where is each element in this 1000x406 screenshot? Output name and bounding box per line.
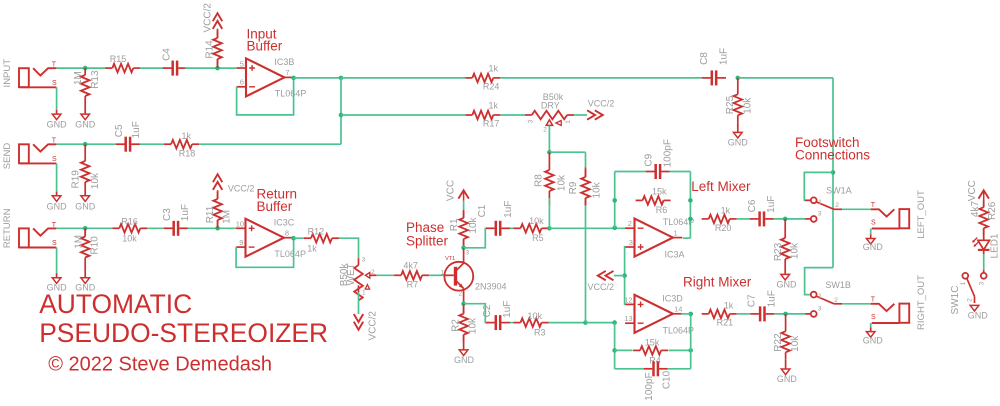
- power VCC/2 below WET pot: [354, 314, 363, 330]
- svg-text:C2: C2: [482, 304, 493, 317]
- svg-text:R16: R16: [121, 217, 138, 227]
- resistor R11: [217, 190, 219, 199]
- ground under LEFT_OUT: [866, 239, 875, 245]
- svg-text:100pF: 100pF: [662, 139, 673, 167]
- svg-text:T: T: [871, 202, 876, 209]
- resistor R20: [702, 218, 709, 220]
- wire C3 to IC3C pin10: [188, 227, 236, 229]
- svg-text:INPUT: INPUT: [2, 59, 13, 88]
- LED LED1: [978, 240, 990, 249]
- ground under R19: [81, 196, 90, 202]
- wire R20 to C6: [737, 218, 751, 220]
- svg-text:R15: R15: [110, 54, 127, 64]
- svg-text:9: 9: [239, 238, 243, 247]
- wire R8 to left mixer node: [548, 198, 550, 228]
- svg-text:GND: GND: [777, 374, 798, 384]
- wire IC3A output: [683, 237, 691, 239]
- svg-text:1: 1: [818, 293, 822, 300]
- svg-text:R26: R26: [987, 201, 998, 220]
- svg-text:R7: R7: [407, 280, 419, 290]
- svg-text:2: 2: [966, 298, 973, 302]
- audio jack connector RIGHT_OUT: [871, 304, 895, 311]
- potentiometer B50k DRY: [525, 114, 532, 116]
- svg-text:4k7: 4k7: [970, 201, 981, 218]
- wire to SW1B pin1: [805, 268, 833, 295]
- wire R18 to corner up to buffer output: [199, 143, 341, 145]
- svg-text:3: 3: [629, 238, 633, 247]
- wire R24 row: [341, 77, 465, 79]
- svg-text:1: 1: [818, 199, 822, 206]
- ground under send jack sleeve: [52, 196, 61, 202]
- svg-text:R25: R25: [725, 95, 736, 114]
- wire R17 to DRY pot: [500, 114, 525, 116]
- capacitor C3: [164, 227, 173, 229]
- svg-text:SW1C: SW1C: [950, 286, 961, 315]
- svg-text:2: 2: [834, 297, 838, 304]
- wire to R17: [341, 114, 465, 116]
- wire return jack sleeve down: [56, 248, 58, 274]
- svg-text:VCC/2: VCC/2: [588, 282, 615, 292]
- svg-text:R3: R3: [534, 328, 546, 338]
- svg-text:1uF: 1uF: [131, 121, 142, 138]
- svg-text:13: 13: [624, 314, 632, 323]
- resistor R5: [514, 227, 521, 229]
- svg-text:GND: GND: [75, 202, 96, 212]
- svg-text:10k: 10k: [790, 242, 801, 259]
- power VCC/2 above R11: [213, 174, 222, 190]
- wire R12 to WET pot: [339, 238, 359, 258]
- svg-text:AUTOMATIC: AUTOMATIC: [39, 289, 192, 319]
- wire R21 to C7: [737, 313, 751, 315]
- wire IC3A pin2 vertical feedback rail: [614, 172, 616, 228]
- node R20 junction: [688, 217, 693, 222]
- resistor R14: [217, 29, 219, 38]
- wire DRY wiper down: [548, 126, 550, 153]
- svg-text:R8: R8: [534, 174, 545, 187]
- svg-text:3: 3: [818, 210, 822, 217]
- ground under RIGHT_OUT: [866, 332, 875, 338]
- wire C9 row: [615, 171, 647, 173]
- node send junction: [83, 142, 88, 147]
- svg-text:100pF: 100pF: [644, 372, 655, 400]
- svg-text:2N3904: 2N3904: [475, 282, 507, 292]
- node IC3C output: [291, 236, 296, 241]
- svg-text:R9: R9: [568, 181, 579, 194]
- svg-text:1uF: 1uF: [767, 290, 778, 307]
- svg-text:10k: 10k: [90, 172, 101, 189]
- svg-text:S: S: [52, 240, 57, 247]
- svg-text:S: S: [52, 156, 57, 163]
- wire R16 to C3: [147, 227, 164, 229]
- svg-text:1k: 1k: [488, 63, 498, 73]
- svg-text:R24: R24: [483, 81, 500, 91]
- svg-text:R2: R2: [451, 319, 462, 332]
- svg-text:Buffer: Buffer: [257, 199, 293, 214]
- node collector junction: [461, 246, 466, 251]
- resistor R25: [737, 78, 739, 88]
- resistor R4: [615, 349, 633, 351]
- wire to SW1A pin1: [804, 172, 833, 200]
- svg-text:1M: 1M: [74, 235, 85, 249]
- svg-text:TL064P: TL064P: [274, 249, 306, 259]
- resistor R17: [465, 114, 472, 116]
- svg-text:S: S: [871, 314, 876, 321]
- capacitor C8: [702, 77, 711, 79]
- svg-text:GND: GND: [454, 355, 475, 365]
- svg-text:R14: R14: [204, 40, 215, 59]
- node R17 branch: [339, 113, 344, 118]
- svg-text:5: 5: [240, 59, 244, 68]
- wire R7 to VT1 base: [429, 274, 444, 276]
- svg-text:GND: GND: [47, 202, 68, 212]
- svg-text:3: 3: [818, 305, 822, 312]
- wire C5 to R18: [140, 143, 164, 145]
- resistor R12: [304, 237, 311, 239]
- op-amp IC3D: [635, 295, 673, 333]
- ground under return jack sleeve: [52, 278, 61, 284]
- ground under R2: [459, 350, 468, 356]
- node return junction: [83, 226, 88, 231]
- svg-text:C1: C1: [477, 204, 488, 217]
- svg-text:TL064P: TL064P: [663, 325, 695, 335]
- svg-text:RIGHT_OUT: RIGHT_OUT: [916, 275, 927, 330]
- svg-text:2: 2: [628, 219, 632, 228]
- resistor R26: [983, 206, 985, 208]
- svg-text:Left Mixer: Left Mixer: [691, 179, 751, 194]
- audio jack connector RETURN: [19, 228, 29, 247]
- svg-text:WET: WET: [346, 263, 357, 285]
- svg-text:C10: C10: [661, 370, 672, 389]
- svg-text:10k: 10k: [468, 216, 479, 233]
- ground under R13: [81, 114, 90, 120]
- wire VCC/2 arrow stub: [614, 275, 625, 277]
- svg-text:8: 8: [285, 229, 289, 238]
- power VCC above R1: [458, 190, 468, 198]
- svg-text:12: 12: [624, 295, 632, 304]
- wire SW1B common to RIGHT_OUT: [842, 303, 871, 305]
- audio jack connector INPUT: [19, 68, 29, 87]
- wire VCC/2 node to IC3A pin3: [624, 247, 627, 304]
- wire R3 to R9 node: [549, 322, 586, 324]
- wire C10 row: [615, 368, 644, 370]
- svg-text:Connections: Connections: [795, 148, 870, 163]
- wire IC3D output: [681, 313, 691, 315]
- svg-text:1k: 1k: [724, 300, 734, 310]
- svg-text:1: 1: [960, 281, 967, 285]
- audio jack connector LEFT_OUT: [871, 209, 895, 216]
- capacitor C6: [750, 218, 759, 220]
- wire right out sleeve down: [870, 323, 872, 327]
- wire IC3C output to R12: [294, 237, 306, 239]
- node IC3B output: [291, 76, 296, 81]
- svg-text:10k: 10k: [528, 311, 543, 321]
- wire down right edge to SW1A: [832, 78, 834, 268]
- svg-text:1: 1: [565, 120, 572, 124]
- wire collector to C1: [464, 228, 487, 248]
- ground under SW1C: [970, 305, 979, 311]
- svg-text:10: 10: [236, 220, 244, 229]
- node R14 junction: [215, 66, 220, 71]
- svg-text:R22: R22: [773, 333, 784, 352]
- wire send jack tip: [56, 143, 116, 145]
- svg-text:LED1: LED1: [990, 233, 1000, 258]
- svg-text:PSEUDO-STEREOIZER: PSEUDO-STEREOIZER: [39, 318, 328, 348]
- node R11 junction: [215, 226, 220, 231]
- wire R4 to right rail: [669, 349, 691, 351]
- svg-text:VCC/2: VCC/2: [588, 99, 615, 109]
- svg-text:IC3C: IC3C: [274, 217, 295, 227]
- wire C4 to IC3B pin5: [185, 67, 237, 69]
- svg-text:2: 2: [459, 290, 463, 297]
- svg-text:VCC: VCC: [967, 180, 978, 201]
- svg-text:3: 3: [362, 257, 366, 264]
- capacitor C1: [486, 227, 495, 229]
- wire return jack tip: [56, 227, 112, 229]
- resistor R1: [463, 210, 465, 218]
- wire IC3B feedback loop: [237, 78, 294, 115]
- node wiper junction: [547, 150, 552, 155]
- svg-text:4k7: 4k7: [403, 261, 418, 271]
- svg-text:7: 7: [285, 68, 289, 77]
- wire C6 to SW1A pin3: [774, 218, 806, 220]
- svg-text:1M: 1M: [222, 210, 233, 224]
- svg-text:10k: 10k: [529, 216, 544, 226]
- svg-text:3: 3: [527, 119, 534, 123]
- wire emitter to C2: [464, 304, 487, 323]
- wire C8 junction to corner: [738, 77, 833, 79]
- node dry split junction: [339, 76, 344, 81]
- svg-text:R1: R1: [449, 218, 460, 231]
- svg-text:10k: 10k: [742, 97, 753, 114]
- node R4 left junction: [612, 348, 617, 353]
- capacitor C5: [116, 143, 125, 145]
- svg-text:S: S: [871, 220, 876, 227]
- capacitor C2: [486, 322, 495, 324]
- transistor VT1 2N3904: [444, 262, 473, 291]
- svg-text:SW1A: SW1A: [826, 185, 852, 195]
- wire left out sleeve down: [870, 229, 872, 235]
- resistor R9: [585, 168, 587, 178]
- svg-text:1uF: 1uF: [180, 204, 191, 221]
- svg-text:S: S: [52, 80, 57, 87]
- wire R15 to C4: [140, 67, 165, 69]
- resistor R24: [465, 77, 472, 79]
- resistor R21: [702, 313, 709, 315]
- svg-text:3: 3: [978, 281, 985, 285]
- svg-text:T: T: [52, 138, 57, 145]
- ground under input jack sleeve: [52, 114, 61, 120]
- svg-text:R10: R10: [89, 236, 100, 255]
- svg-text:1uF: 1uF: [502, 301, 513, 318]
- svg-text:GND: GND: [863, 242, 884, 252]
- resistor R13: [84, 68, 86, 75]
- svg-text:1k: 1k: [721, 205, 731, 215]
- wire LED1 to SW1C: [983, 250, 985, 254]
- svg-text:© 2022 Steve Demedash: © 2022 Steve Demedash: [48, 354, 272, 376]
- wire C10 to right rail: [668, 368, 691, 370]
- wire WET wiper to R7: [370, 274, 377, 276]
- capacitor C9: [646, 171, 655, 173]
- ground under R22: [781, 369, 790, 375]
- wire right rail IC3D: [690, 314, 692, 369]
- power VCC/2 above R14: [213, 13, 222, 29]
- svg-text:VT1: VT1: [445, 256, 455, 262]
- svg-text:1M: 1M: [73, 71, 84, 85]
- node R9 bottom junction: [583, 320, 588, 325]
- wire C2 to R3: [510, 322, 514, 324]
- svg-text:T: T: [52, 222, 57, 229]
- wire right feedback rail down: [689, 172, 691, 239]
- svg-text:GND: GND: [968, 311, 989, 321]
- svg-text:C5: C5: [114, 124, 125, 137]
- svg-text:LEFT_OUT: LEFT_OUT: [916, 190, 927, 239]
- node R23 junction: [783, 217, 788, 222]
- svg-text:T: T: [871, 296, 876, 303]
- svg-text:T: T: [52, 62, 57, 69]
- node R6 left junction: [612, 198, 617, 203]
- audio jack connector SEND: [19, 144, 29, 163]
- wire pin13 feedback rail down: [614, 323, 616, 369]
- node emitter junction: [461, 301, 466, 306]
- resistor R10: [84, 228, 86, 236]
- svg-text:R21: R21: [717, 317, 734, 327]
- power VCC/2 mixers: [598, 271, 614, 280]
- resistor R7: [394, 274, 401, 276]
- svg-text:VCC/2: VCC/2: [367, 311, 378, 341]
- svg-text:10k: 10k: [557, 174, 568, 191]
- svg-text:1uF: 1uF: [719, 48, 730, 65]
- svg-text:GND: GND: [47, 119, 68, 129]
- node VCC/2 mixers: [622, 273, 627, 278]
- svg-text:2: 2: [835, 202, 839, 209]
- capacitor C7: [750, 313, 759, 315]
- wire IC3B output to junction: [294, 77, 341, 79]
- svg-text:VCC/2: VCC/2: [228, 183, 255, 193]
- wire R9 down to R3 row: [585, 206, 587, 323]
- svg-text:1k: 1k: [181, 131, 191, 141]
- potentiometer B50k WET: [358, 258, 360, 265]
- resistor R16: [112, 227, 119, 229]
- op-amp IC3C: [246, 219, 284, 257]
- wire C7 to SW1B pin3: [774, 313, 806, 315]
- wire DRY pot to VCC/2: [574, 114, 587, 116]
- power VCC/2 right of DRY pot: [587, 110, 603, 119]
- wire R3 row to IC3D pin13 node: [586, 322, 615, 324]
- node R6 right junction: [688, 198, 693, 203]
- ground under R25: [734, 132, 743, 138]
- svg-text:SEND: SEND: [2, 143, 13, 170]
- svg-text:R12: R12: [308, 226, 325, 236]
- svg-text:10k: 10k: [790, 335, 801, 352]
- node IC3A pin2 junction: [612, 226, 617, 231]
- op-amp IC3A: [635, 219, 673, 257]
- wire send jack sleeve down: [56, 163, 58, 191]
- node IC3D output: [688, 312, 693, 317]
- node R4 right junction: [688, 348, 693, 353]
- node input junction: [83, 66, 88, 71]
- ground under R23: [781, 274, 790, 280]
- node left mixer input: [547, 226, 552, 231]
- svg-text:TL064P: TL064P: [275, 88, 307, 98]
- svg-text:GND: GND: [75, 119, 96, 129]
- capacitor C4: [163, 67, 172, 69]
- svg-text:1k: 1k: [488, 100, 498, 110]
- svg-text:1: 1: [674, 228, 678, 237]
- node SW1A branch: [831, 170, 836, 175]
- svg-text:14: 14: [674, 304, 682, 313]
- svg-text:R13: R13: [90, 70, 101, 89]
- svg-text:10k: 10k: [592, 181, 603, 198]
- svg-text:C4: C4: [161, 48, 172, 61]
- svg-text:C9: C9: [643, 153, 654, 166]
- node IC3D pin13 junction: [612, 320, 617, 325]
- svg-text:6: 6: [240, 78, 244, 87]
- svg-text:C7: C7: [746, 294, 757, 307]
- svg-text:C8: C8: [699, 52, 710, 65]
- resistor R22: [785, 314, 787, 325]
- svg-text:R23: R23: [773, 242, 784, 261]
- capacitor C10: [644, 368, 653, 370]
- ground under R10: [81, 278, 90, 284]
- svg-text:15k: 15k: [652, 186, 667, 196]
- wire VCC to R1: [463, 201, 465, 210]
- svg-text:VCC: VCC: [445, 180, 456, 201]
- svg-text:R20: R20: [715, 223, 732, 233]
- svg-text:1k: 1k: [307, 244, 317, 254]
- power VCC above R26: [979, 190, 989, 198]
- resistor R8: [548, 152, 550, 163]
- svg-text:3: 3: [465, 249, 469, 256]
- wire WET pot pin1 to VCC/2: [358, 292, 360, 314]
- svg-text:1uF: 1uF: [766, 196, 777, 213]
- svg-text:R17: R17: [483, 118, 500, 128]
- svg-text:DRY: DRY: [541, 101, 560, 111]
- svg-text:15k: 15k: [645, 337, 660, 347]
- svg-text:1: 1: [362, 289, 366, 296]
- svg-text:C3: C3: [162, 208, 173, 221]
- svg-text:2: 2: [543, 127, 547, 134]
- resistor R6: [636, 199, 643, 201]
- wire input jack sleeve down: [56, 87, 58, 110]
- svg-text:IC3A: IC3A: [664, 250, 684, 260]
- svg-text:RETURN: RETURN: [2, 208, 13, 248]
- svg-text:IC3D: IC3D: [662, 294, 683, 304]
- svg-text:1: 1: [440, 269, 444, 276]
- svg-text:VCC/2: VCC/2: [202, 3, 213, 33]
- svg-text:C6: C6: [747, 199, 758, 212]
- wire wiper rail corner down to R9: [585, 152, 587, 167]
- svg-text:R11: R11: [205, 205, 216, 223]
- svg-text:GND: GND: [777, 279, 798, 289]
- svg-text:10k: 10k: [468, 317, 479, 334]
- svg-text:IC3B: IC3B: [274, 57, 294, 67]
- wire C1 to R5: [510, 227, 514, 229]
- node C8/R25 junction: [736, 76, 741, 81]
- resistor R19: [84, 144, 86, 154]
- svg-text:R5: R5: [532, 233, 544, 243]
- wire C9 to right rail: [669, 171, 690, 173]
- svg-text:GND: GND: [863, 335, 884, 345]
- wire input jack tip to R15: [56, 67, 105, 69]
- svg-text:R18: R18: [179, 149, 196, 159]
- wire IC3C feedback loop: [236, 238, 294, 267]
- wire VCC to R26: [983, 201, 985, 207]
- wire wiper junction to R9 top: [549, 151, 585, 153]
- svg-text:1uF: 1uF: [503, 201, 514, 218]
- op-amp IC3B: [246, 58, 284, 96]
- resistor R15: [105, 67, 112, 69]
- wire left mixer node to IC3A pin2: [549, 227, 625, 229]
